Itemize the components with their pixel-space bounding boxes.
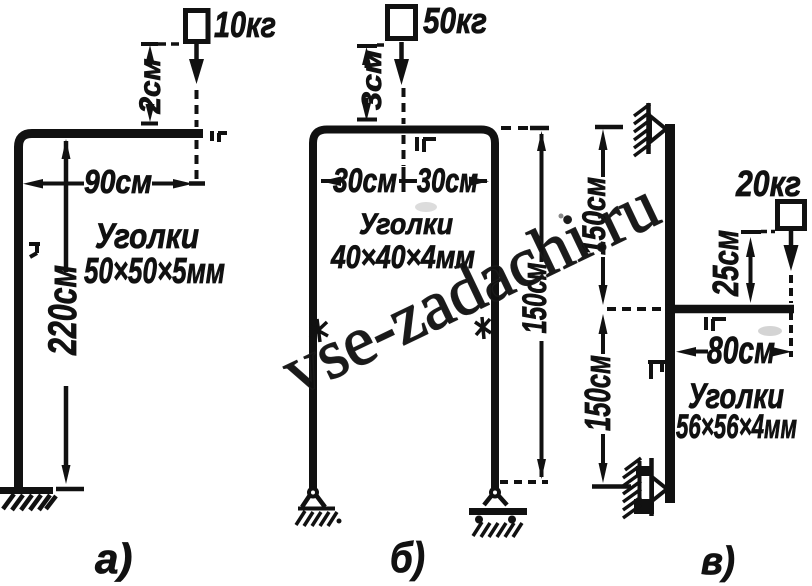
svg-text:50кг: 50кг <box>423 0 487 41</box>
svg-text:Уголки: Уголки <box>359 208 453 241</box>
svg-text:150см: 150см <box>577 355 618 431</box>
svg-text:30см: 30см <box>333 162 397 200</box>
svg-text:в): в) <box>701 540 735 583</box>
svg-text:30см: 30см <box>417 162 478 200</box>
svg-text:80см: 80см <box>707 330 775 372</box>
svg-text:3см: 3см <box>356 50 387 110</box>
svg-text:а): а) <box>95 535 132 582</box>
svg-text:220см: 220см <box>41 265 85 356</box>
svg-text:56×56×4мм: 56×56×4мм <box>676 408 797 446</box>
svg-text:25см: 25см <box>705 230 746 297</box>
svg-text:2см: 2см <box>134 59 167 115</box>
svg-text:90см: 90см <box>84 163 152 200</box>
svg-text:50×50×5мм: 50×50×5мм <box>84 250 225 291</box>
svg-text:20кг: 20кг <box>735 163 801 204</box>
svg-text:б): б) <box>390 534 425 582</box>
svg-text:10кг: 10кг <box>214 4 276 45</box>
